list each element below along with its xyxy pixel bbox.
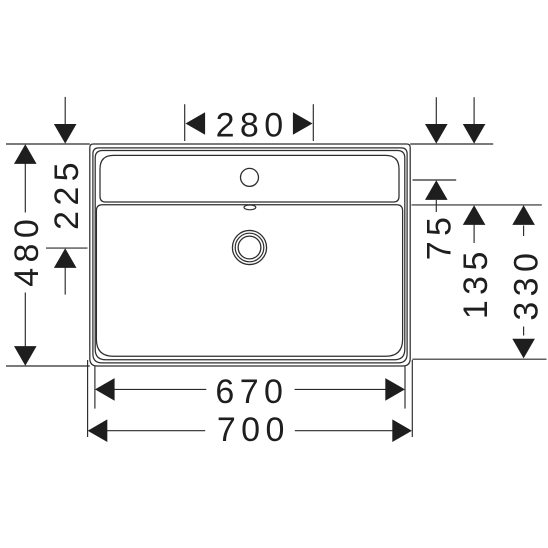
- 480 bottom arrow (down): [14, 346, 37, 366]
- 670 dim line left segment: [114, 388, 206, 390]
- drain axis extension line: [46, 247, 88, 249]
- svg-text:480: 480: [8, 214, 46, 287]
- washbasin outer edge: [90, 144, 410, 366]
- svg-text:225: 225: [48, 157, 86, 230]
- faucet hole: [241, 168, 259, 186]
- 135 bottom arrow (up): [463, 205, 486, 225]
- 280 arrow right: [293, 112, 313, 135]
- svg-text:280: 280: [216, 107, 289, 145]
- svg-text:670: 670: [215, 373, 288, 411]
- 480 dim lower tail: [24, 293, 26, 348]
- drain inner circle: [238, 236, 261, 259]
- washbasin rim line 1: [93, 148, 407, 363]
- 75 lower arrow tail: [435, 200, 437, 212]
- 700 extension line left: [87, 360, 89, 437]
- top extension line left: [6, 143, 90, 145]
- drain middle circle: [235, 233, 264, 262]
- svg-text:330: 330: [507, 248, 545, 321]
- 480 dim upper tail: [24, 163, 26, 213]
- 330 top arrow (up): [512, 205, 535, 225]
- 480 top arrow (up): [14, 144, 37, 164]
- 135 top arrow tail: [473, 97, 475, 125]
- 330 bottom arrow (down): [512, 339, 535, 359]
- 700 extension line right: [411, 360, 413, 437]
- drain outer circle: [232, 230, 266, 264]
- 700 dim line right segment: [295, 430, 393, 432]
- 280 tick right: [312, 104, 314, 141]
- bowl bottom extension line right: [412, 358, 546, 360]
- 280 tick left: [184, 104, 186, 141]
- 225 top arrow tail: [64, 97, 66, 126]
- 75 top arrow (down): [425, 124, 448, 144]
- svg-text:75: 75: [421, 212, 459, 261]
- 670 dim line right segment: [295, 388, 386, 390]
- inner bowl outline: [96, 205, 402, 356]
- 330 upper tail: [523, 226, 525, 237]
- 700 arrow left: [88, 419, 108, 442]
- 700 dim line left segment: [107, 430, 205, 432]
- washbasin rim line 2: [95, 151, 405, 360]
- svg-text:135: 135: [457, 246, 495, 319]
- tap deck outline: [100, 155, 399, 202]
- overflow slot: [244, 205, 256, 210]
- deck edge extension line: [412, 204, 542, 206]
- top extension line right: [410, 143, 493, 145]
- 670 arrow left: [95, 378, 115, 401]
- 135 top arrow (down): [463, 124, 486, 144]
- faucet axis extension line: [413, 179, 457, 181]
- 700 arrow right: [392, 419, 412, 442]
- 225 bottom arrow (up): [54, 248, 77, 268]
- 225 top arrow (down): [54, 124, 77, 144]
- 225 lower arrow tail: [64, 267, 66, 295]
- svg-text:700: 700: [217, 411, 290, 449]
- 330 lower tail: [523, 327, 525, 336]
- 670 tick right: [404, 366, 406, 408]
- 670 tick left: [94, 366, 96, 408]
- 75 top arrow tail: [435, 97, 437, 125]
- 75 bottom arrow (up): [425, 180, 448, 200]
- 670 arrow right: [385, 378, 405, 401]
- 280 arrow left: [186, 112, 206, 135]
- 135 lower arrow tail: [473, 224, 475, 243]
- bottom extension line left: [6, 365, 90, 367]
